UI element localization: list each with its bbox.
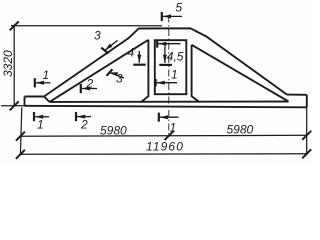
- svg-text:1: 1: [37, 118, 44, 132]
- svg-text:2: 2: [80, 118, 88, 132]
- svg-text:3: 3: [94, 29, 101, 43]
- svg-text:5980: 5980: [227, 122, 254, 136]
- svg-text:1: 1: [170, 121, 177, 135]
- svg-text:3320: 3320: [1, 50, 15, 77]
- svg-text:4,5: 4,5: [167, 50, 184, 64]
- svg-text:11960: 11960: [146, 140, 184, 154]
- svg-text:5980: 5980: [100, 123, 127, 137]
- svg-text:3: 3: [116, 72, 123, 86]
- svg-text:1: 1: [43, 68, 50, 82]
- svg-text:1: 1: [171, 68, 178, 82]
- svg-text:4: 4: [128, 46, 135, 60]
- svg-text:5: 5: [176, 1, 183, 15]
- svg-text:2: 2: [86, 77, 94, 91]
